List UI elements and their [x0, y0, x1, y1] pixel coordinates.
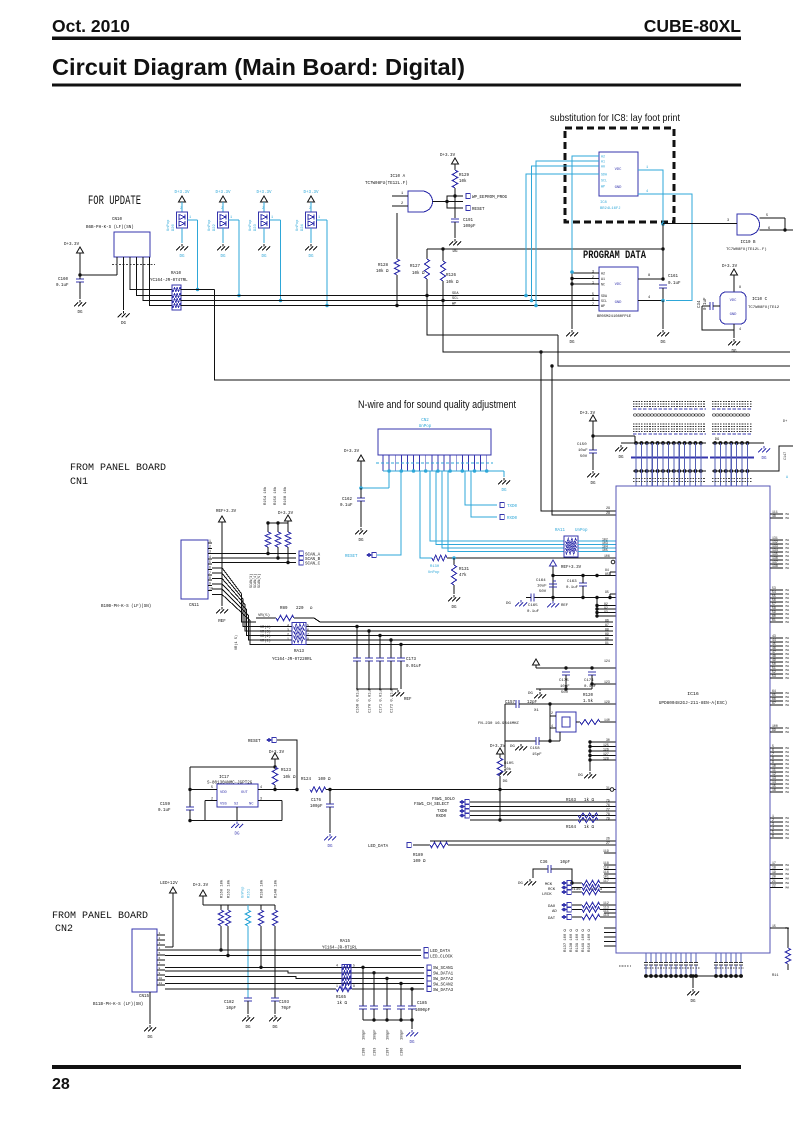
svg-text:MA: MA — [786, 653, 790, 656]
svg-text:IC10 C: IC10 C — [752, 298, 768, 302]
svg-text:19: 19 — [772, 870, 776, 874]
svg-text:RA15: RA15 — [340, 940, 351, 944]
svg-text:DG: DG — [358, 539, 364, 543]
svg-text:DG: DG — [308, 255, 314, 259]
svg-text:LED_CLOCK: LED_CLOCK — [430, 955, 453, 959]
svg-text:MA: MA — [786, 601, 790, 604]
svg-text:3: 3 — [209, 550, 211, 554]
svg-text:NC: NC — [249, 803, 254, 807]
svg-text:VR(2): VR(2) — [260, 634, 271, 639]
svg-text:D+3.3V: D+3.3V — [278, 512, 294, 516]
svg-text:MA: MA — [786, 700, 790, 703]
svg-text:SCAN(5): SCAN(5) — [257, 574, 262, 588]
svg-text:105: 105 — [602, 548, 608, 552]
svg-text:RESET: RESET — [472, 208, 485, 212]
svg-text:1: 1 — [401, 192, 403, 196]
svg-text:MA: MA — [786, 869, 790, 872]
svg-text:SCAN_B: SCAN_B — [305, 558, 321, 562]
svg-text:UnPop: UnPop — [296, 219, 300, 231]
svg-text:10k: 10k — [504, 767, 512, 772]
svg-text:10k: 10k — [459, 179, 467, 184]
svg-text:TXD0: TXD0 — [437, 810, 448, 814]
svg-text:VR(5): VR(5) — [258, 613, 270, 618]
svg-text:C159: C159 — [160, 803, 171, 807]
svg-text:5: 5 — [209, 560, 211, 564]
svg-text:IC16: IC16 — [687, 691, 699, 697]
svg-text:A2: A2 — [601, 155, 605, 159]
svg-text:R124: R124 — [301, 778, 312, 782]
svg-text:UnPop: UnPop — [249, 219, 253, 231]
svg-text:31: 31 — [606, 786, 610, 790]
svg-text:114: 114 — [603, 913, 609, 917]
svg-text:DG: DG — [690, 1000, 696, 1004]
svg-text:RCK: RCK — [548, 888, 556, 892]
svg-text:MA: MA — [786, 771, 790, 774]
svg-text:1k Ω: 1k Ω — [337, 1001, 348, 1006]
svg-text:CN2: CN2 — [55, 924, 73, 935]
svg-text:17: 17 — [772, 861, 776, 865]
svg-text:2: 2 — [262, 207, 264, 211]
svg-text:R105: R105 — [504, 762, 514, 766]
svg-text:R189: R189 — [413, 854, 424, 858]
svg-text:1: 1 — [189, 216, 191, 220]
svg-text:D+3.3V: D+3.3V — [193, 884, 209, 888]
svg-text:LED_DATA: LED_DATA — [368, 845, 389, 849]
svg-text:8: 8 — [353, 984, 355, 988]
svg-text:DG: DG — [261, 255, 267, 259]
svg-text:R130: R130 — [430, 565, 440, 569]
svg-text:140: 140 — [604, 718, 610, 722]
svg-text:1k Ω: 1k Ω — [584, 825, 595, 830]
svg-text:IC8: IC8 — [600, 201, 608, 205]
svg-text:89: 89 — [605, 632, 609, 636]
svg-text:D24: D24 — [301, 223, 305, 231]
svg-text:MA: MA — [786, 613, 790, 616]
svg-text:RXD0: RXD0 — [507, 517, 518, 521]
svg-text:R161: R161 — [248, 888, 252, 898]
svg-text:TC7W08FU(TE12: TC7W08FU(TE12 — [748, 305, 780, 310]
svg-text:21: 21 — [772, 879, 776, 883]
svg-text:10pF: 10pF — [560, 861, 571, 865]
svg-text:MA: MA — [786, 661, 790, 664]
svg-text:2: 2 — [401, 202, 403, 206]
svg-text:125: 125 — [603, 743, 609, 747]
svg-text:IC10 A: IC10 A — [390, 175, 406, 179]
svg-text:R89: R89 — [280, 607, 288, 611]
svg-text:DG: DG — [501, 489, 507, 493]
svg-text:4: 4 — [336, 964, 338, 968]
svg-text:18: 18 — [772, 866, 776, 870]
svg-text:1.5k: 1.5k — [583, 699, 594, 704]
svg-text:2: 2 — [287, 633, 289, 637]
svg-text:5: 5 — [353, 964, 355, 968]
svg-text:FROM PANEL BOARD: FROM PANEL BOARD — [52, 911, 148, 922]
svg-text:50V: 50V — [561, 691, 569, 695]
svg-text:67: 67 — [772, 701, 776, 705]
svg-text:DG: DG — [327, 845, 333, 849]
svg-text:VDC: VDC — [615, 283, 623, 287]
svg-text:C174: C174 — [584, 679, 594, 683]
svg-text:0.1uF: 0.1uF — [584, 685, 597, 689]
svg-text:TC7W08FU(TE12L.F): TC7W08FU(TE12L.F) — [726, 247, 767, 252]
svg-text:D22: D22 — [213, 223, 217, 231]
svg-text:4: 4 — [159, 947, 161, 950]
svg-text:10k Ω: 10k Ω — [283, 775, 296, 780]
svg-text:UnPop: UnPop — [575, 529, 588, 533]
svg-text:D+3.3V: D+3.3V — [215, 191, 231, 195]
svg-text:C34: C34 — [698, 300, 702, 308]
svg-text:28: 28 — [52, 1076, 70, 1093]
svg-text:MA: MA — [786, 645, 790, 648]
svg-text:C160: C160 — [58, 278, 69, 282]
svg-text:C173: C173 — [406, 658, 417, 662]
svg-text:B11B-PH-K-S (LF)(SN): B11B-PH-K-S (LF)(SN) — [93, 1002, 143, 1007]
svg-text:C164: C164 — [536, 579, 546, 583]
svg-text:30: 30 — [606, 738, 610, 742]
svg-text:3: 3 — [592, 270, 594, 274]
svg-text:C161: C161 — [668, 275, 679, 279]
svg-text:220: 220 — [296, 607, 304, 611]
svg-text:4: 4 — [648, 296, 650, 300]
svg-text:119: 119 — [603, 849, 609, 853]
svg-text:87: 87 — [605, 623, 609, 627]
svg-text:R137 100 Ω: R137 100 Ω — [564, 928, 568, 952]
svg-text:MA: MA — [786, 704, 790, 707]
svg-text:R158 10k: R158 10k — [260, 879, 265, 898]
svg-text:10pF: 10pF — [226, 1007, 237, 1011]
svg-text:REF+3.3V: REF+3.3V — [216, 510, 237, 514]
svg-text:R150 100 Ω: R150 100 Ω — [588, 928, 592, 952]
svg-text:MA: MA — [786, 563, 790, 566]
svg-text:C150: C150 — [577, 443, 587, 447]
svg-text:DG: DG — [179, 255, 185, 259]
svg-text:DG: DG — [518, 882, 523, 886]
svg-text:TXD0: TXD0 — [507, 505, 518, 509]
svg-text:REF: REF — [218, 620, 226, 624]
svg-text:C176: C176 — [311, 799, 322, 803]
svg-text:50V: 50V — [539, 590, 547, 594]
svg-text:DG: DG — [77, 311, 83, 315]
svg-text:CN1: CN1 — [70, 477, 88, 488]
svg-text:R126: R126 — [446, 274, 457, 278]
svg-text:1000pF: 1000pF — [415, 1009, 431, 1013]
svg-text:6: 6 — [768, 227, 770, 231]
svg-text:substitution for IC8: lay foot: substitution for IC8: lay foot print — [550, 112, 680, 124]
svg-text:100 Ω: 100 Ω — [318, 778, 331, 782]
svg-text:MA: MA — [786, 825, 790, 828]
svg-text:123: 123 — [604, 680, 610, 684]
svg-text:22: 22 — [772, 884, 776, 888]
svg-text:R164: R164 — [566, 826, 577, 830]
svg-text:C188: C188 — [363, 1048, 367, 1056]
svg-text:DG: DG — [147, 1036, 153, 1040]
svg-text:C158: C158 — [530, 747, 540, 751]
svg-text:0.1uF: 0.1uF — [668, 282, 681, 286]
svg-text:DG: DG — [220, 255, 226, 259]
svg-text:129: 129 — [604, 700, 610, 704]
svg-text:2: 2 — [309, 207, 311, 211]
svg-text:106: 106 — [604, 554, 610, 558]
svg-text:R131: R131 — [459, 568, 470, 572]
svg-text:UnPop: UnPop — [242, 886, 246, 898]
svg-text:DG: DG — [761, 457, 767, 461]
svg-text:C185: C185 — [417, 1002, 428, 1006]
svg-text:5: 5 — [307, 624, 309, 628]
svg-text:75: 75 — [606, 798, 610, 802]
svg-text:10: 10 — [159, 977, 163, 980]
svg-text:MA: MA — [786, 747, 790, 750]
svg-text:SCAN_A: SCAN_A — [305, 554, 321, 558]
svg-text:VSS: VSS — [220, 803, 228, 807]
svg-text:MA: MA — [786, 589, 790, 592]
svg-text:8: 8 — [739, 286, 741, 290]
svg-text:MA: MA — [786, 829, 790, 832]
svg-text:DG: DG — [528, 692, 533, 696]
svg-text:D+3.3V: D+3.3V — [440, 154, 456, 158]
svg-text:R123: R123 — [281, 769, 292, 773]
svg-text:47k: 47k — [459, 573, 467, 578]
svg-text:2: 2 — [159, 937, 161, 940]
svg-text:MA: MA — [786, 779, 790, 782]
svg-text:MA: MA — [786, 833, 790, 836]
svg-text:118: 118 — [603, 861, 609, 865]
svg-text:R163: R163 — [566, 799, 577, 803]
svg-text:C170 0.01uF: C170 0.01uF — [369, 687, 373, 713]
svg-text:93: 93 — [604, 610, 608, 614]
svg-text:DG: DG — [590, 482, 596, 486]
svg-text:GND: GND — [730, 313, 738, 317]
svg-text:1: 1 — [271, 216, 273, 220]
svg-text:MA: MA — [786, 791, 790, 794]
svg-text:112: 112 — [603, 901, 609, 905]
svg-text:DG: DG — [731, 350, 737, 354]
svg-text:DG: DG — [451, 606, 457, 610]
svg-text:8: 8 — [307, 637, 309, 641]
svg-text:DG: DG — [234, 833, 240, 837]
svg-text:C162: C162 — [342, 498, 353, 502]
svg-text:127: 127 — [603, 752, 609, 756]
svg-text:MA: MA — [786, 513, 790, 516]
svg-text:1: 1 — [592, 281, 594, 285]
svg-text:S2: S2 — [234, 803, 238, 807]
svg-text:78: 78 — [606, 812, 610, 816]
svg-text:YC164-JR-0747RL: YC164-JR-0747RL — [150, 279, 188, 283]
svg-text:MA: MA — [786, 621, 790, 624]
svg-text:10k Ω: 10k Ω — [412, 271, 425, 276]
svg-text:R149 100 Ω: R149 100 Ω — [582, 928, 586, 952]
svg-text:C168 0.01uF: C168 0.01uF — [357, 687, 361, 713]
svg-text:A2: A2 — [601, 272, 605, 276]
svg-text:1: 1 — [646, 166, 648, 170]
svg-text:VR(1 S): VR(1 S) — [234, 635, 239, 650]
svg-text:7: 7 — [592, 302, 594, 306]
svg-text:2: 2 — [180, 207, 182, 211]
svg-text:LED+12V: LED+12V — [160, 882, 178, 886]
svg-text:DG: DG — [452, 250, 458, 254]
svg-text:MA: MA — [786, 755, 790, 758]
svg-text:0.01uF: 0.01uF — [406, 665, 422, 669]
svg-text:5: 5 — [159, 952, 161, 955]
svg-text:VDD: VDD — [220, 791, 228, 795]
svg-text:RXD0: RXD0 — [436, 815, 447, 819]
svg-text:IC10 B: IC10 B — [740, 241, 756, 245]
svg-text:MA: MA — [786, 696, 790, 699]
svg-text:MA: MA — [786, 677, 790, 680]
svg-text:3: 3 — [159, 942, 161, 945]
svg-text:AD: AD — [552, 910, 557, 914]
svg-text:MA: MA — [786, 692, 790, 695]
svg-text:1: 1 — [159, 932, 161, 935]
svg-text:WP: WP — [601, 304, 605, 308]
svg-text:86: 86 — [605, 619, 609, 623]
svg-text:D+3.3V: D+3.3V — [64, 243, 80, 247]
svg-text:A1: A1 — [601, 277, 605, 281]
svg-text:MA: MA — [786, 783, 790, 786]
svg-text:0.1uF: 0.1uF — [527, 610, 540, 614]
svg-text:DG: DG — [715, 438, 720, 442]
svg-text:GND: GND — [615, 301, 623, 305]
svg-text:126: 126 — [603, 747, 609, 751]
svg-text:3: 3 — [287, 628, 289, 632]
svg-text:C191: C191 — [463, 219, 474, 223]
svg-text:2: 2 — [221, 207, 223, 211]
svg-text:2: 2 — [551, 711, 553, 715]
svg-text:1: 1 — [287, 637, 289, 641]
svg-text:1k Ω: 1k Ω — [584, 798, 595, 803]
svg-text:4: 4 — [287, 624, 289, 628]
svg-text:R128: R128 — [378, 264, 389, 268]
svg-text:C163: C163 — [567, 580, 577, 584]
svg-text:YC164-JR-07220RL: YC164-JR-07220RL — [272, 658, 313, 662]
svg-text:4: 4 — [646, 190, 648, 194]
svg-text:D+3.3V: D+3.3V — [490, 745, 506, 749]
svg-text:100pF: 100pF — [374, 1029, 378, 1040]
svg-text:SW_DATA1: SW_DATA1 — [433, 973, 454, 977]
svg-text:138: 138 — [772, 564, 778, 568]
svg-text:DG: DG — [503, 780, 508, 784]
svg-text:1: 1 — [336, 984, 338, 988]
svg-text:0.1uF: 0.1uF — [158, 809, 171, 813]
svg-text:MA: MA — [786, 673, 790, 676]
svg-text:MA: MA — [786, 821, 790, 824]
svg-text:D+3.3V: D+3.3V — [303, 191, 319, 195]
svg-text:SW_SCAN1: SW_SCAN1 — [433, 967, 454, 971]
svg-text:110: 110 — [603, 866, 609, 870]
svg-text:MA: MA — [786, 641, 790, 644]
svg-text:DG: DG — [510, 745, 515, 749]
svg-text:SW_DATA2: SW_DATA2 — [433, 978, 454, 982]
svg-text:D+3.3V: D+3.3V — [269, 751, 285, 755]
svg-text:11: 11 — [159, 982, 163, 985]
svg-text:MA: MA — [786, 731, 790, 734]
svg-text:DG: DG — [272, 1026, 278, 1030]
svg-text:SCAN_C: SCAN_C — [305, 563, 321, 567]
svg-text:SW_DATA3: SW_DATA3 — [433, 989, 454, 993]
svg-text:DG: DG — [245, 1026, 251, 1030]
svg-text:100 Ω: 100 Ω — [413, 860, 426, 864]
svg-text:FOR UPDATE: FOR UPDATE — [88, 193, 141, 208]
svg-text:MA: MA — [786, 539, 790, 542]
svg-text:D+3.3V: D+3.3V — [174, 191, 190, 195]
svg-text:MA: MA — [786, 609, 790, 612]
svg-text:DG: DG — [578, 774, 583, 778]
svg-text:MA: MA — [786, 547, 790, 550]
svg-text:MA: MA — [786, 517, 790, 520]
svg-text:90: 90 — [605, 637, 609, 641]
svg-text:MA: MA — [786, 727, 790, 730]
svg-text:MA: MA — [786, 617, 790, 620]
svg-text:C175: C175 — [559, 679, 569, 683]
svg-text:MA: MA — [786, 555, 790, 558]
svg-text:6: 6 — [307, 628, 309, 632]
svg-text:R165: R165 — [336, 996, 347, 1000]
svg-text:RA13: RA13 — [294, 650, 305, 654]
svg-text:16: 16 — [772, 788, 776, 792]
svg-text:100pF: 100pF — [310, 805, 323, 809]
svg-text:D+: D+ — [783, 420, 787, 424]
svg-text:Circuit Diagram (Main Board: D: Circuit Diagram (Main Board: Digital) — [52, 54, 465, 80]
svg-text:MA: MA — [786, 597, 790, 600]
svg-text:R168 10k: R168 10k — [283, 486, 288, 505]
svg-text:A1: A1 — [601, 160, 605, 164]
svg-text:28: 28 — [606, 512, 610, 516]
svg-text:SCL: SCL — [601, 179, 607, 183]
svg-text:R127: R127 — [410, 265, 421, 269]
svg-text:C193: C193 — [279, 1001, 290, 1005]
svg-text:20: 20 — [772, 875, 776, 879]
svg-text:R129: R129 — [459, 174, 470, 178]
svg-text:A0: A0 — [601, 165, 605, 169]
svg-text:MA: MA — [786, 817, 790, 820]
svg-text:R156 10k: R156 10k — [273, 486, 278, 505]
svg-text:B6B-PH-K-S (LF)(SN): B6B-PH-K-S (LF)(SN) — [86, 225, 134, 230]
svg-text:26: 26 — [606, 837, 610, 841]
svg-text:48: 48 — [772, 514, 776, 518]
svg-text:R139 100 Ω: R139 100 Ω — [576, 928, 580, 952]
svg-text:MA: MA — [786, 882, 790, 885]
svg-text:117: 117 — [603, 879, 609, 883]
svg-text:2: 2 — [592, 275, 594, 279]
svg-text:0.1uF: 0.1uF — [566, 586, 579, 590]
svg-text:RESET: RESET — [345, 555, 358, 559]
svg-text:R138 100 Ω: R138 100 Ω — [570, 928, 574, 952]
svg-text:LED_DATA: LED_DATA — [430, 950, 451, 954]
svg-text:R154 10k: R154 10k — [263, 486, 268, 505]
svg-text:91: 91 — [605, 641, 609, 645]
svg-text:7: 7 — [307, 633, 309, 637]
svg-text:MA: MA — [786, 649, 790, 652]
svg-text:CUBE-80XL: CUBE-80XL — [644, 16, 742, 36]
svg-text:27: 27 — [606, 841, 610, 845]
svg-text:VR(1): VR(1) — [260, 639, 271, 644]
svg-text:X1: X1 — [534, 709, 539, 713]
svg-text:MA: MA — [786, 657, 790, 660]
svg-text:CN10: CN10 — [112, 218, 123, 222]
svg-text:DAT: DAT — [548, 917, 556, 921]
svg-text:CN2: CN2 — [421, 419, 429, 423]
svg-text:SCL: SCL — [452, 297, 458, 301]
svg-text:MA: MA — [786, 751, 790, 754]
svg-text:MCK: MCK — [545, 883, 553, 887]
svg-text:BR05M241080FP1E: BR05M241080FP1E — [597, 315, 632, 319]
svg-text:4: 4 — [739, 328, 741, 332]
svg-text:SCL: SCL — [601, 299, 607, 303]
svg-text:6: 6 — [772, 834, 774, 838]
svg-text:D+3.3V: D+3.3V — [256, 191, 272, 195]
svg-text:REF: REF — [561, 604, 569, 608]
svg-text:REF+3.3V: REF+3.3V — [561, 566, 582, 570]
svg-text:WP_EEPROM_PROG: WP_EEPROM_PROG — [472, 196, 508, 200]
